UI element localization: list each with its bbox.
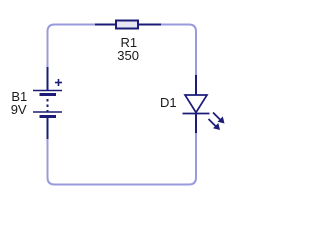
svg-text:350: 350 [117,48,139,63]
svg-text:D1: D1 [160,95,177,110]
svg-text:9V: 9V [11,102,27,117]
